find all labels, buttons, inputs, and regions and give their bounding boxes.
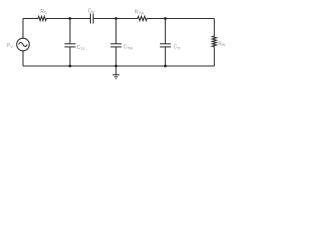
node E	[115, 65, 118, 68]
node B	[115, 17, 118, 20]
label CTI	[174, 45, 181, 51]
node D	[69, 65, 72, 68]
svg-text:CW: CW	[88, 8, 96, 14]
node C	[164, 17, 167, 20]
capacitor CW	[90, 14, 93, 24]
label CTC	[77, 45, 86, 51]
svg-text:RW: RW	[218, 41, 226, 47]
wire bottom rail	[23, 65, 214, 67]
svg-text:RTW: RTW	[135, 10, 145, 16]
wire left vertical bottom	[22, 51, 24, 66]
ground	[113, 66, 120, 79]
node A	[69, 17, 72, 20]
label CTW	[124, 45, 134, 51]
svg-text:CTW: CTW	[124, 45, 134, 51]
resistor RTW	[138, 16, 148, 20]
AC source PV	[17, 38, 30, 51]
capacitor CTC	[65, 19, 76, 67]
wire top rail seg3	[93, 18, 137, 20]
svg-text:RG: RG	[40, 9, 47, 15]
wire right vertical bottom	[213, 47, 215, 66]
svg-text:PV: PV	[7, 43, 13, 49]
label CW	[88, 8, 96, 14]
wire top rail seg1	[23, 18, 38, 20]
wire right vertical top	[213, 19, 215, 37]
svg-text:CTC: CTC	[77, 45, 86, 51]
wire top rail seg2	[46, 18, 90, 20]
wire top rail seg4	[147, 18, 214, 20]
node F	[164, 65, 167, 68]
label RW	[218, 41, 226, 47]
resistor RG	[38, 16, 46, 20]
capacitor CTI	[160, 19, 171, 67]
label RTW	[135, 10, 145, 16]
wire left vertical top	[22, 19, 24, 39]
label RG	[40, 9, 47, 15]
svg-text:CTI: CTI	[174, 45, 181, 51]
label PV	[7, 43, 13, 49]
resistor RW	[212, 36, 216, 47]
capacitor CTW	[111, 19, 122, 67]
